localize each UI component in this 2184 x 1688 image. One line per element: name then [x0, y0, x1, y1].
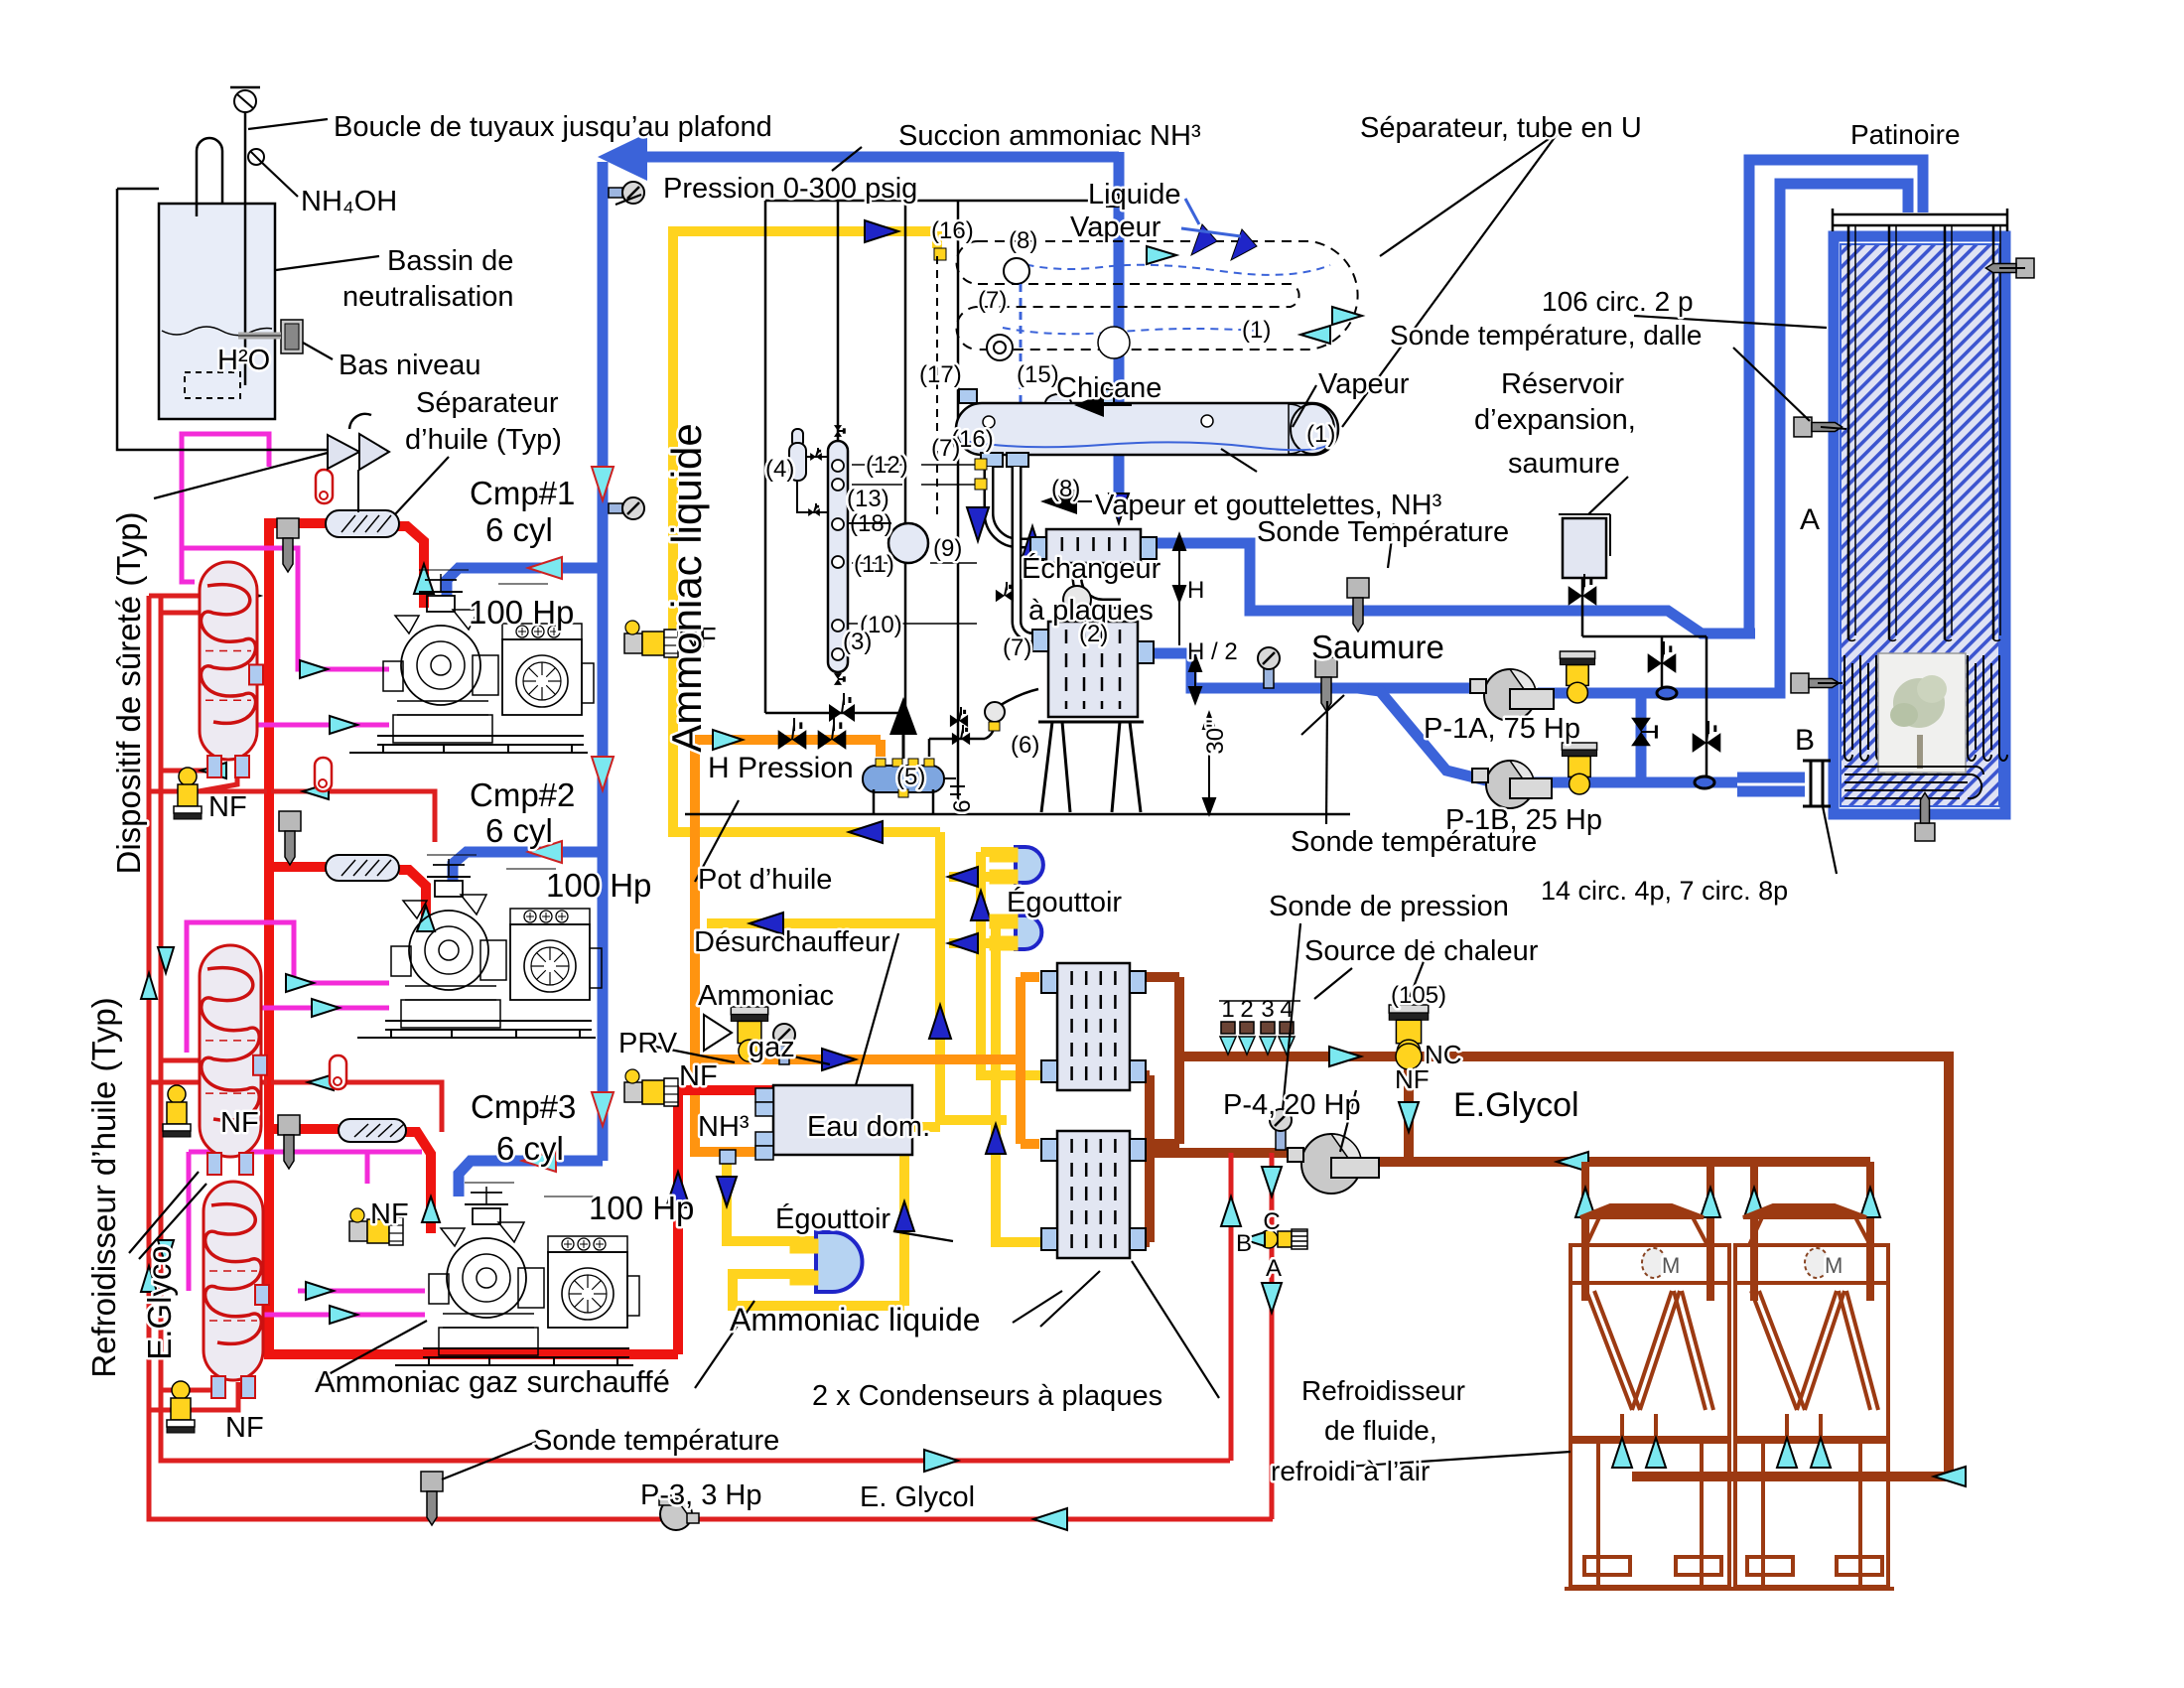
svg-text:NH³: NH³	[698, 1111, 750, 1143]
svg-text:M: M	[1825, 1253, 1843, 1278]
svg-text:NC: NC	[1425, 1040, 1462, 1069]
svg-text:100 Hp: 100 Hp	[469, 594, 574, 631]
svg-text:(12): (12)	[866, 452, 908, 479]
svg-text:NH₄OH: NH₄OH	[301, 186, 397, 217]
svg-text:Sonde température: Sonde température	[1291, 826, 1537, 858]
svg-text:Sonde Température: Sonde Température	[1257, 516, 1509, 548]
svg-text:A: A	[1800, 503, 1820, 536]
svg-text:Refroidisseur d’huile (Typ): Refroidisseur d’huile (Typ)	[85, 997, 122, 1377]
svg-text:d’huile (Typ): d’huile (Typ)	[405, 424, 562, 456]
svg-text:Ammoniac gaz surchauffé: Ammoniac gaz surchauffé	[315, 1364, 670, 1399]
svg-text:Sonde température, dalle: Sonde température, dalle	[1390, 320, 1702, 351]
svg-text:(8): (8)	[1051, 476, 1080, 502]
svg-text:6: 6	[949, 799, 976, 812]
svg-text:Bassin de: Bassin de	[387, 245, 513, 277]
svg-text:(17): (17)	[919, 361, 962, 388]
svg-text:(3): (3)	[843, 629, 872, 655]
svg-text:106 circ. 2 p: 106 circ. 2 p	[1542, 286, 1694, 317]
svg-text:100 Hp: 100 Hp	[589, 1190, 694, 1226]
svg-text:(1): (1)	[1306, 421, 1335, 448]
svg-text:30": 30"	[1202, 719, 1229, 754]
svg-text:NF: NF	[1395, 1064, 1430, 1094]
svg-text:P-3, 3 Hp: P-3, 3 Hp	[640, 1479, 762, 1511]
svg-text:(11): (11)	[854, 551, 894, 578]
svg-text:100 Hp: 100 Hp	[546, 867, 651, 904]
svg-text:2: 2	[1240, 996, 1253, 1023]
svg-text:(7): (7)	[1003, 634, 1031, 661]
svg-text:B: B	[1795, 724, 1815, 757]
svg-text:Ammoniac liquide: Ammoniac liquide	[730, 1302, 981, 1337]
svg-text:6 cyl: 6 cyl	[496, 1130, 564, 1167]
svg-text:H / 2: H / 2	[1187, 638, 1238, 665]
svg-text:NF: NF	[220, 1107, 259, 1139]
svg-text:(6): (6)	[1011, 732, 1039, 759]
svg-text:(7): (7)	[931, 435, 960, 462]
svg-text:Liquide: Liquide	[1088, 179, 1181, 211]
svg-text:Cmp#2: Cmp#2	[470, 776, 575, 813]
svg-text:P-1A, 75 Hp: P-1A, 75 Hp	[1424, 713, 1580, 745]
svg-text:Chicane: Chicane	[1056, 372, 1161, 404]
svg-text:Source de chaleur: Source de chaleur	[1304, 935, 1539, 967]
svg-text:Eau dom.: Eau dom.	[807, 1111, 930, 1143]
svg-text:3: 3	[1261, 996, 1274, 1023]
svg-text:(5): (5)	[896, 764, 925, 790]
svg-text:saumure: saumure	[1508, 448, 1620, 480]
svg-text:(16): (16)	[931, 217, 974, 244]
svg-text:H: H	[1187, 577, 1204, 604]
svg-text:(8): (8)	[1009, 227, 1037, 254]
svg-text:E.Glyco: E.Glyco	[141, 1245, 178, 1360]
svg-text:(13): (13)	[847, 486, 889, 512]
svg-text:6 cyl: 6 cyl	[485, 812, 553, 849]
svg-text:Pot d’huile: Pot d’huile	[698, 864, 832, 896]
svg-text:NF: NF	[208, 791, 247, 823]
svg-text:Bas niveau: Bas niveau	[339, 350, 481, 381]
svg-text:Vapeur: Vapeur	[1070, 211, 1161, 243]
svg-text:Réservoir: Réservoir	[1501, 368, 1624, 400]
svg-text:1: 1	[1221, 996, 1234, 1023]
svg-text:Sonde température: Sonde température	[533, 1425, 779, 1457]
svg-text:H Pression: H Pression	[708, 752, 854, 784]
svg-text:Échangeur: Échangeur	[1022, 552, 1161, 585]
svg-text:Cmp#1: Cmp#1	[470, 475, 575, 511]
svg-text:(7): (7)	[978, 287, 1007, 314]
svg-text:(105): (105)	[1391, 982, 1446, 1009]
svg-text:Cmp#3: Cmp#3	[471, 1088, 576, 1125]
svg-text:Séparateur, tube en U: Séparateur, tube en U	[1360, 112, 1642, 144]
svg-text:PRV: PRV	[618, 1028, 678, 1059]
svg-text:Pression 0-300 psig: Pression 0-300 psig	[663, 173, 917, 205]
svg-text:Désurchauffeur: Désurchauffeur	[694, 926, 890, 958]
svg-text:H²O: H²O	[217, 345, 270, 376]
svg-text:2 x Condenseurs à plaques: 2 x Condenseurs à plaques	[812, 1380, 1162, 1412]
svg-text:NF: NF	[679, 1060, 718, 1092]
svg-text:de fluide,: de fluide,	[1324, 1415, 1437, 1446]
svg-text:Ammoniac: Ammoniac	[698, 980, 834, 1012]
svg-text:C: C	[1263, 1208, 1280, 1235]
svg-text:(15): (15)	[1017, 361, 1059, 388]
svg-text:(2): (2)	[1079, 621, 1108, 647]
svg-text:6 cyl: 6 cyl	[485, 511, 553, 548]
svg-text:Séparateur: Séparateur	[416, 387, 559, 419]
svg-text:NF: NF	[225, 1412, 264, 1444]
svg-text:Vapeur: Vapeur	[1318, 368, 1410, 400]
svg-text:(4): (4)	[765, 456, 794, 483]
svg-text:Égouttoir: Égouttoir	[775, 1202, 890, 1235]
svg-text:Égouttoir: Égouttoir	[1007, 886, 1122, 918]
svg-text:A: A	[1266, 1255, 1282, 1282]
svg-text:Boucle de tuyaux jusqu’au plaf: Boucle de tuyaux jusqu’au plafond	[334, 111, 772, 143]
svg-text:(1): (1)	[1242, 317, 1271, 344]
svg-text:neutralisation: neutralisation	[342, 281, 514, 313]
svg-text:(9): (9)	[933, 535, 962, 562]
svg-text:d’expansion,: d’expansion,	[1474, 404, 1636, 436]
svg-text:Refroidisseur: Refroidisseur	[1301, 1375, 1465, 1406]
svg-text:E.Glycol: E.Glycol	[1453, 1086, 1579, 1124]
svg-text:Ammoniac liquide: Ammoniac liquide	[663, 423, 710, 753]
svg-text:gaz: gaz	[749, 1032, 795, 1063]
svg-text:14 circ. 4p, 7 circ. 8p: 14 circ. 4p, 7 circ. 8p	[1541, 876, 1788, 906]
svg-text:M: M	[1662, 1253, 1680, 1278]
svg-text:Dispositif de sûreté (Typ): Dispositif de sûreté (Typ)	[110, 512, 147, 875]
svg-text:Sonde de pression: Sonde de pression	[1269, 891, 1509, 922]
svg-text:E. Glycol: E. Glycol	[860, 1481, 975, 1513]
svg-text:Patinoire: Patinoire	[1850, 119, 1961, 150]
svg-text:NF: NF	[370, 1198, 409, 1230]
svg-text:B: B	[1236, 1230, 1252, 1257]
svg-text:Succion ammoniac NH³: Succion ammoniac NH³	[898, 120, 1201, 152]
svg-text:P-4, 20 Hp: P-4, 20 Hp	[1223, 1089, 1361, 1121]
svg-text:Saumure: Saumure	[1311, 629, 1444, 665]
svg-text:refroidi à l’air: refroidi à l’air	[1271, 1456, 1430, 1486]
